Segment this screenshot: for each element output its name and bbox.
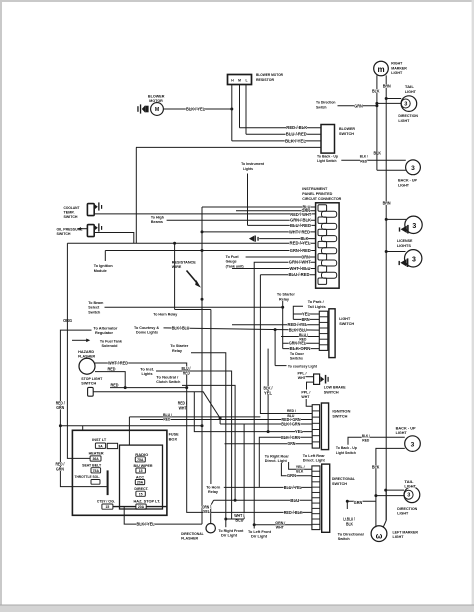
wire BLK to tail light	[377, 102, 401, 104]
svg-text:RED: RED	[183, 371, 190, 376]
svg-text:36A: 36A	[92, 457, 99, 461]
wire license feed 2	[386, 251, 405, 253]
blower motor resistor box	[228, 75, 252, 85]
svg-text:Relay: Relay	[208, 489, 219, 494]
wire to left front dir light stub	[253, 525, 255, 529]
svg-text:RESISTOR: RESISTOR	[256, 77, 274, 82]
svg-text:Switchs: Switchs	[290, 356, 303, 361]
svg-text:HAZ. STOP LT.: HAZ. STOP LT.	[134, 500, 161, 504]
left marker light	[375, 496, 377, 528]
wire BLK/YEL blower motor feed	[163, 108, 231, 110]
wire Lt.BLU/BLK stub	[346, 501, 348, 509]
svg-text:BRN: BRN	[302, 317, 310, 322]
wire BRN to tail light lower	[386, 489, 404, 491]
wire BLK to tail light lower	[376, 495, 404, 497]
junction WHT/RED spine	[201, 230, 204, 233]
svg-text:Switch: Switch	[88, 309, 101, 314]
wire YEL row ignition	[194, 392, 312, 432]
svg-text:To Horn Relay: To Horn Relay	[153, 312, 178, 317]
svg-text:SWITCH: SWITCH	[324, 389, 339, 394]
svg-text:BLU / RED: BLU / RED	[289, 272, 310, 277]
wire WHT/BLU crossover	[226, 518, 244, 520]
svg-text:BLU / RED: BLU / RED	[286, 132, 307, 137]
wire BLK/YEL vertical	[267, 349, 269, 432]
svg-text:Regulator: Regulator	[95, 330, 113, 335]
wire ORG to fuse box	[67, 243, 90, 458]
svg-text:RED: RED	[362, 438, 369, 443]
svg-text:3: 3	[412, 257, 416, 264]
svg-text:BRN: BRN	[383, 83, 391, 88]
wire fuse box feed left	[82, 426, 84, 431]
wire fuse link HAZ to box edge	[146, 506, 167, 508]
wire GRN row directional	[281, 463, 312, 476]
svg-text:Clutch Switch: Clutch Switch	[156, 379, 181, 384]
junction license 1	[385, 218, 388, 221]
svg-text:BOX: BOX	[169, 436, 178, 441]
svg-text:3: 3	[407, 493, 410, 499]
svg-text:YEL: YEL	[302, 312, 310, 317]
svg-text:RED: RED	[108, 366, 116, 371]
wire BLK/RED to back-up light (top)	[341, 159, 406, 161]
svg-text:75A: 75A	[137, 458, 144, 462]
junction RED/YEL row	[173, 242, 176, 245]
svg-text:WHT / RED: WHT / RED	[108, 360, 128, 365]
wire to courtesy light	[275, 365, 286, 367]
svg-text:Module: Module	[94, 268, 108, 273]
wire GRN/WHT row	[254, 262, 315, 525]
svg-text:BLK / GRN: BLK / GRN	[281, 422, 300, 427]
svg-text:m: m	[377, 65, 384, 74]
wire WHT/RED row from spine	[202, 231, 316, 233]
svg-text:9A: 9A	[98, 444, 103, 448]
wire PPL/WHT to ignition switch	[306, 399, 312, 406]
junction blower feed	[230, 108, 233, 111]
junction BLK/BLU courtesy branch	[274, 328, 277, 331]
wire bus to spine	[60, 425, 202, 427]
wire GRN to direction/tail junction	[338, 105, 377, 107]
wire BRN row	[293, 318, 319, 320]
junction spine lower	[201, 424, 204, 427]
svg-text:3: 3	[404, 102, 407, 108]
svg-text:LIGHTS: LIGHTS	[397, 243, 411, 248]
svg-text:SWITCH: SWITCH	[339, 131, 354, 136]
wire GRN bottom	[347, 500, 376, 502]
wire stop light switch diagonal	[93, 392, 220, 424]
wire to right front dir light stub	[225, 519, 227, 527]
svg-text:HEATER: HEATER	[89, 452, 104, 456]
svg-text:BLU: BLU	[235, 518, 243, 523]
svg-text:Relay: Relay	[279, 296, 290, 301]
svg-text:3: 3	[411, 165, 415, 172]
junction left front	[253, 523, 256, 526]
svg-text:RED: RED	[360, 158, 367, 163]
svg-text:M: M	[155, 107, 159, 113]
svg-text:SWITCH: SWITCH	[57, 231, 71, 236]
wire WHT/BLU row	[232, 268, 316, 270]
svg-text:WHT: WHT	[179, 405, 187, 410]
svg-text:(Tank unit): (Tank unit)	[226, 263, 245, 268]
svg-text:GRN: GRN	[354, 500, 363, 505]
wire BLK/RED to back-up light	[348, 437, 405, 444]
wire RED/GRN row	[140, 419, 312, 421]
svg-text:RED / BLK: RED / BLK	[284, 510, 304, 515]
svg-text:BLK: BLK	[372, 88, 380, 93]
wire BLK/GRN row 2	[259, 437, 312, 487]
back-up light (lower)	[405, 436, 421, 452]
svg-text:BLU: BLU	[290, 498, 299, 503]
ignition switch connector	[312, 405, 319, 448]
connector arrow in	[249, 236, 254, 242]
svg-text:3: 3	[412, 223, 416, 230]
svg-text:15: 15	[139, 469, 143, 473]
wire resistor pin H to blower switch BLK/YEL	[231, 85, 233, 141]
svg-text:FLASHER: FLASHER	[181, 536, 198, 541]
svg-text:Solenoid: Solenoid	[102, 343, 119, 348]
wire WHT/BLU vertical	[243, 424, 245, 519]
wire YEL/BLK row	[289, 462, 312, 469]
wire RED/YEL long row	[67, 242, 315, 244]
wire directional flasher chain	[211, 500, 214, 523]
svg-text:BLK: BLK	[346, 521, 354, 526]
svg-text:BLK: BLK	[372, 465, 380, 470]
junction WHT/RED	[185, 386, 188, 389]
svg-text:Relay: Relay	[172, 348, 183, 353]
svg-text:DIRECT.: DIRECT.	[134, 487, 148, 491]
svg-text:GRN / RED: GRN / RED	[290, 248, 311, 253]
wire BLK/GRN row	[220, 423, 312, 425]
wire GRN/YEL row light switch	[283, 342, 320, 344]
wire BLK from marker light	[376, 75, 378, 170]
junction RED	[124, 386, 127, 389]
light switch connector	[319, 311, 328, 350]
wire RED/BLU row (from connector BLU/RED)	[260, 275, 312, 414]
svg-text:ORN: ORN	[301, 254, 310, 259]
svg-text:RED: RED	[111, 382, 119, 387]
svg-text:LIGHT: LIGHT	[391, 70, 403, 75]
svg-text:WHT: WHT	[301, 394, 310, 399]
wire GRN/RED row (to ignition module)	[105, 250, 315, 252]
oil switch left lead	[79, 228, 87, 230]
svg-text:YEL: YEL	[264, 390, 272, 395]
wire BRN trunk right side	[385, 75, 387, 520]
wire to back-up light bottom	[377, 169, 406, 171]
svg-text:RADIO: RADIO	[135, 453, 148, 457]
svg-text:BLU / YEL: BLU / YEL	[284, 485, 302, 490]
svg-text:BLK / GRN: BLK / GRN	[281, 435, 300, 440]
wire GRN/BLK row (to high beams)	[167, 219, 316, 221]
wire BRN to tail light	[386, 98, 401, 100]
svg-text:ω: ω	[376, 532, 383, 541]
svg-text:INST LT: INST LT	[92, 438, 107, 442]
svg-text:Lights: Lights	[142, 371, 153, 376]
svg-text:LIGHT: LIGHT	[396, 430, 408, 435]
svg-text:WHT / RED: WHT / RED	[289, 229, 310, 234]
junction license 2	[385, 250, 388, 253]
wire GRN/WHT row	[254, 524, 312, 526]
svg-text:20A: 20A	[137, 481, 144, 485]
svg-text:BLK: BLK	[374, 150, 382, 155]
wire BLU/RED row (to instrument lights)	[248, 224, 316, 226]
svg-text:BLK / YEL: BLK / YEL	[186, 106, 205, 111]
svg-text:RED: RED	[163, 417, 170, 422]
wire BLU row	[202, 206, 316, 208]
junction GRN bottom	[346, 500, 349, 503]
svg-text:CIRCUIT CONNECTOR: CIRCUIT CONNECTOR	[302, 196, 341, 201]
svg-text:BLK / YEL: BLK / YEL	[137, 522, 155, 527]
wire trunk to blower switch (4th pin)	[136, 146, 321, 148]
svg-text:15: 15	[106, 505, 110, 509]
svg-text:GRN /YEL: GRN /YEL	[289, 341, 306, 346]
svg-text:RED / BLK: RED / BLK	[286, 125, 308, 130]
svg-text:Switch: Switch	[338, 536, 351, 541]
wire to neutral clutch	[182, 385, 235, 500]
svg-text:LIGHT: LIGHT	[405, 89, 417, 94]
svg-text:LIGHT: LIGHT	[398, 118, 410, 123]
fuse box inner panel	[120, 445, 163, 509]
junction BLK	[374, 494, 377, 497]
svg-text:Direct. Light: Direct. Light	[303, 458, 326, 463]
svg-text:CTSY / CIG.: CTSY / CIG.	[97, 500, 115, 504]
svg-text:Light Switch: Light Switch	[317, 158, 337, 163]
wire fuel tank solenoid arrow	[72, 339, 87, 341]
svg-text:SWITCH: SWITCH	[64, 214, 78, 219]
wire WHT/RED from hazard flasher	[95, 363, 187, 388]
svg-text:ORN: ORN	[287, 441, 295, 446]
svg-text:SWITCH: SWITCH	[339, 321, 354, 326]
svg-text:SWITCH: SWITCH	[332, 414, 347, 419]
wire alternator regulator	[60, 330, 106, 487]
svg-text:Light Switch: Light Switch	[336, 450, 357, 455]
back-up light (upper)	[406, 160, 421, 175]
wire coolant switch to connector RED/WHT	[94, 213, 315, 215]
wire BLU/RED bottom row	[260, 274, 315, 276]
wire horn relay	[174, 243, 176, 309]
svg-text:75A: 75A	[93, 469, 100, 473]
svg-text:GRN: GRN	[56, 466, 64, 471]
wire RED/YEL row light switch	[232, 324, 319, 326]
wire BLK back-up ground	[376, 448, 405, 495]
junction BRN tail lower	[384, 489, 387, 492]
svg-text:Dir Light: Dir Light	[251, 534, 268, 539]
tail light (right)	[401, 96, 417, 112]
svg-text:Dir Light: Dir Light	[221, 533, 238, 538]
svg-text:BLU / RED: BLU / RED	[290, 223, 311, 228]
wire fuse link CTSY to HAZ	[113, 506, 136, 508]
wire park/tail bracket	[293, 306, 303, 319]
wire BLU/RED to inst lights	[156, 371, 232, 519]
wire YEL row	[293, 313, 319, 315]
wire BLK/YEL bottom	[124, 507, 202, 524]
wire RED to directional RED/BLK	[110, 388, 312, 513]
svg-text:LIGHT: LIGHT	[404, 484, 416, 489]
svg-text:LIGHT: LIGHT	[398, 182, 410, 187]
junction YEL	[267, 430, 270, 433]
directional flasher	[206, 524, 215, 533]
ground license 1	[401, 226, 407, 233]
svg-text:WHT: WHT	[276, 525, 285, 530]
tail light (lower)	[404, 487, 420, 503]
junction BLK tail	[375, 102, 378, 105]
svg-text:RED / YEL: RED / YEL	[290, 241, 311, 246]
svg-text:GRN: GRN	[287, 473, 296, 478]
svg-text:20A: 20A	[138, 505, 145, 509]
svg-text:GRN: GRN	[354, 103, 363, 108]
wire resistor pin L to blower switch BLU/RED	[245, 85, 247, 135]
wire BLU/YEL row	[224, 486, 312, 488]
svg-text:To courtesy Light: To courtesy Light	[288, 363, 318, 368]
wire starter relay left	[191, 353, 226, 519]
svg-text:LIGHT: LIGHT	[397, 511, 409, 516]
ground license 2	[400, 259, 406, 266]
wire license feed 1	[386, 218, 406, 220]
svg-text:Beams: Beams	[151, 219, 163, 224]
svg-text:WHT / BLU: WHT / BLU	[290, 266, 311, 271]
svg-text:15: 15	[139, 492, 143, 496]
svg-text:B/U WIPER: B/U WIPER	[134, 464, 153, 468]
wire BLK/ORN row light switch	[283, 348, 320, 350]
junction GRN	[375, 104, 378, 107]
directional switch connector	[312, 466, 320, 530]
bus bar inside fuse box	[107, 470, 109, 495]
wire BLU row	[214, 499, 312, 501]
svg-text:ACC: ACC	[136, 475, 145, 479]
svg-text:Direct. Light: Direct. Light	[265, 458, 288, 463]
low brake switch	[306, 376, 314, 378]
junction GRN/RED spine	[201, 249, 204, 252]
wire branch to courtesy light	[274, 330, 276, 366]
junction BRN tail	[385, 97, 388, 100]
svg-text:SEAT BELT: SEAT BELT	[82, 463, 102, 467]
license light 1	[405, 216, 422, 233]
wire to beam select switch	[105, 306, 283, 308]
svg-text:BLK / YEL: BLK / YEL	[285, 138, 306, 143]
svg-text:WIRE: WIRE	[172, 264, 182, 269]
svg-text:WHT: WHT	[298, 375, 307, 380]
right marker light	[374, 61, 389, 76]
wire starter relay vertical	[282, 300, 284, 348]
svg-text:SWITCH: SWITCH	[81, 381, 96, 386]
junction right front	[224, 518, 227, 521]
junction stop light wire	[219, 417, 222, 420]
svg-text:RED / WHT: RED / WHT	[290, 212, 311, 217]
license light 2	[405, 250, 422, 267]
svg-text:BLK: BLK	[296, 468, 303, 473]
wire GRN row	[236, 210, 316, 212]
svg-text:GRN: GRN	[56, 405, 64, 410]
svg-text:SWITCH: SWITCH	[332, 481, 347, 486]
junction spine	[201, 298, 204, 301]
wire resistor pin M to blower switch RED/BLK	[239, 85, 241, 128]
svg-text:L: L	[245, 79, 247, 83]
wire oil pressure switch jog	[94, 233, 133, 244]
wire BLU/RED row light switch	[281, 336, 319, 338]
fuse box	[72, 430, 166, 515]
svg-text:RED / YEL: RED / YEL	[288, 322, 308, 327]
svg-text:GRN / WHT: GRN / WHT	[289, 260, 311, 265]
wire RED from hazard flasher	[95, 372, 125, 388]
svg-text:THROTTLE SOL.: THROTTLE SOL.	[75, 475, 101, 479]
svg-text:3: 3	[411, 441, 415, 448]
junction alternator bus	[59, 424, 62, 427]
wire spine vertical	[201, 207, 203, 524]
wire ORN row ignition	[225, 443, 313, 445]
wire ORN row (to fuel gauge)	[246, 256, 316, 258]
svg-text:BRN: BRN	[383, 200, 391, 205]
svg-text:LIGHT: LIGHT	[393, 534, 405, 539]
svg-text:YEL: YEL	[203, 509, 210, 514]
svg-text:M: M	[238, 79, 241, 83]
svg-text:Lights: Lights	[243, 166, 253, 171]
wire BLK/BLU courtesy to light switch	[164, 328, 320, 330]
svg-text:Switch: Switch	[316, 104, 327, 109]
wire BLU/RED bus	[129, 416, 260, 418]
wire BLK row right part	[259, 238, 315, 240]
junction BLU row	[234, 499, 237, 502]
svg-text:Dome Lights: Dome Lights	[136, 330, 158, 335]
svg-text:BLK / BLU: BLK / BLU	[172, 325, 190, 330]
junction beam select	[281, 306, 284, 309]
svg-text:Tail Lights: Tail Lights	[308, 304, 326, 309]
svg-text:YEL: YEL	[295, 429, 303, 434]
blower switch	[321, 125, 335, 154]
